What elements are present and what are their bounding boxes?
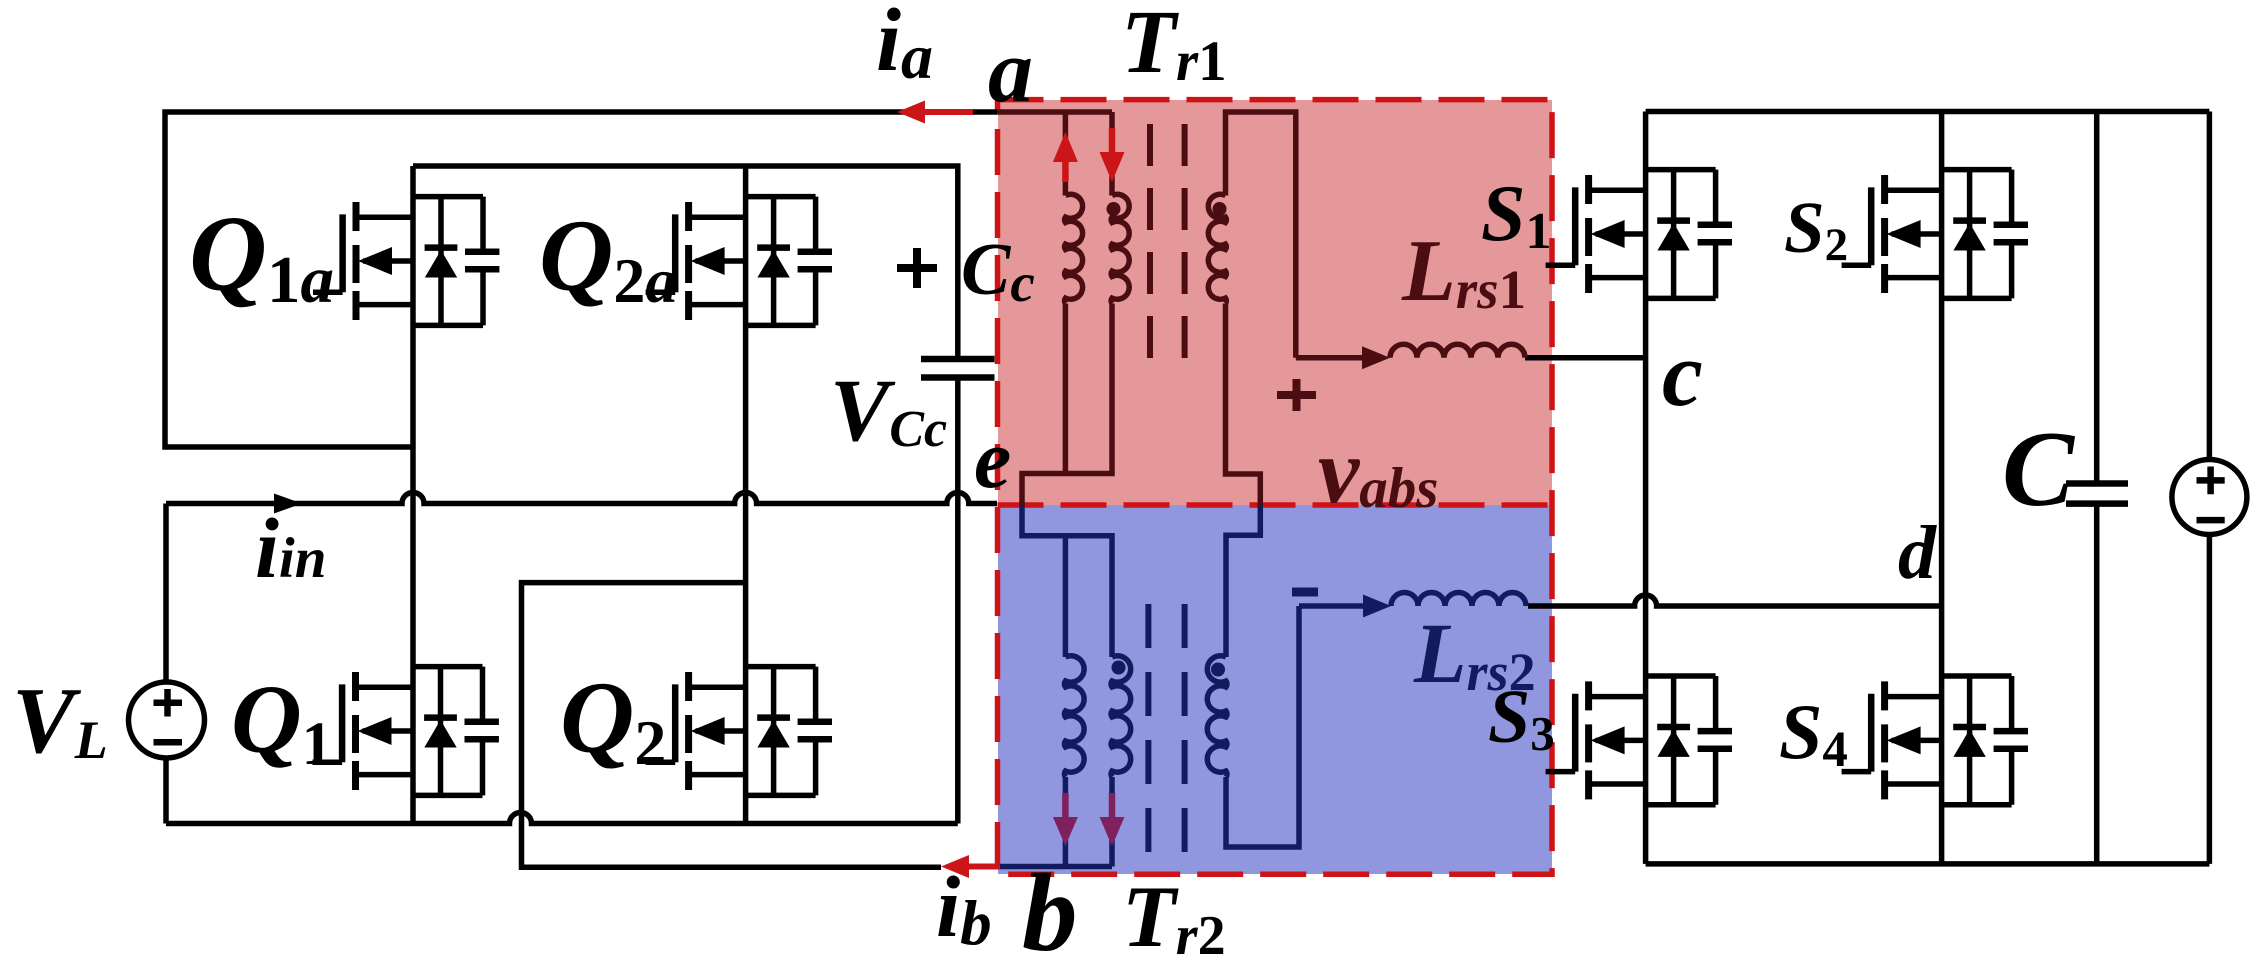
svg-text:VL: VL xyxy=(12,669,108,773)
svg-text:d: d xyxy=(1898,511,1937,595)
transistor Q1a xyxy=(313,197,499,326)
dot Tr2 primary-2 xyxy=(1112,661,1126,675)
dashed divider xyxy=(998,502,1553,508)
transistor S3 xyxy=(1546,676,1732,805)
svg-text:ia: ia xyxy=(876,0,933,92)
wire Tr1 secondary top lead xyxy=(1226,112,1296,358)
wire Lrs2 to node d with hop xyxy=(1528,595,1942,606)
arrow on Lrs2 wire xyxy=(1363,595,1391,618)
wire bus S1-S3 xyxy=(1643,112,1649,864)
svg-text:e: e xyxy=(974,413,1011,506)
svg-text:Tr2: Tr2 xyxy=(1122,869,1226,963)
wire Tr2 secondary bottom lead xyxy=(1226,606,1299,847)
wire Tr2 secondary top lead xyxy=(1226,505,1260,657)
wire Lrs1 to node c xyxy=(1525,355,1646,361)
svg-text:C: C xyxy=(2002,410,2076,529)
shaded region Tr2 (blue) xyxy=(998,505,1552,874)
wire clamp rail to Cc xyxy=(413,166,958,359)
svg-text:c: c xyxy=(1662,323,1703,425)
wire VL bottom lead xyxy=(163,756,169,824)
winding Tr2 secondary xyxy=(1207,656,1227,777)
capacitor Cc xyxy=(921,359,995,378)
capacitor C xyxy=(2066,484,2128,504)
svg-text:Q1: Q1 xyxy=(231,666,332,778)
wire Tr2 primary-2 bottom lead xyxy=(1109,777,1115,867)
arrow Tr2 current down 2 xyxy=(1109,793,1116,820)
winding Tr2 primary 1 xyxy=(1064,656,1084,777)
wire bottom rail with hop xyxy=(166,813,958,824)
inductor Lrs2 xyxy=(1391,593,1526,607)
wire Tr2 primary-1 top lead xyxy=(1063,536,1069,657)
arrow i_b xyxy=(941,855,969,878)
wire Tr1 primary-2 top lead xyxy=(1109,112,1115,196)
arrow Tr2 current down 1 xyxy=(1062,793,1069,820)
wire Tr1 primary bottom link to node e xyxy=(1022,304,1112,506)
svg-text:S4: S4 xyxy=(1779,688,1848,778)
winding Tr2 primary 2 xyxy=(1111,656,1131,777)
svg-text:S2: S2 xyxy=(1784,187,1848,271)
wire node b inside region xyxy=(1000,864,1112,870)
wire node e rail with hops xyxy=(166,493,997,504)
arrow i_in xyxy=(274,494,302,514)
source output xyxy=(2172,460,2247,535)
svg-text:Tr1: Tr1 xyxy=(1121,0,1227,93)
wire bus Q2a-Q2 xyxy=(743,166,749,824)
wire VL top lead xyxy=(163,504,169,685)
wire output source leads xyxy=(2207,112,2213,864)
arrow on Lrs1 wire xyxy=(1362,346,1390,369)
wire bus Q1a-Q1 xyxy=(410,166,416,824)
transistor S4 xyxy=(1842,676,2028,805)
dot Tr2 secondary xyxy=(1211,663,1225,677)
core Tr1 xyxy=(1150,124,1185,360)
winding Tr1 secondary xyxy=(1208,194,1226,303)
transistor Q2 xyxy=(646,667,832,796)
plus vabs xyxy=(1277,379,1316,411)
wire node a to Tr1 primaries xyxy=(997,109,1112,115)
svg-text:iin: iin xyxy=(255,500,326,596)
transistor Q1 xyxy=(313,667,499,796)
wire bus S2-S4 xyxy=(1939,112,1945,864)
wire Tr1 primary-1 top lead xyxy=(1063,112,1069,196)
wire node e link to Tr2 primaries xyxy=(1022,505,1112,657)
wire Lrs1 left xyxy=(1296,355,1364,361)
wire top rail right xyxy=(1646,109,2210,115)
minus vabs xyxy=(1292,588,1318,597)
svg-text:a: a xyxy=(988,22,1033,121)
shaded region Tr1 (red) xyxy=(998,100,1552,505)
dot Tr1 secondary xyxy=(1213,202,1227,216)
winding Tr1 primary 1 xyxy=(1065,194,1083,303)
svg-text:Q2: Q2 xyxy=(560,661,666,778)
wire Tr1 secondary bottom lead xyxy=(1226,304,1261,506)
svg-text:Q2a: Q2a xyxy=(539,199,677,316)
source VL xyxy=(129,682,205,758)
wire capacitor C bus xyxy=(2094,112,2100,864)
plus Cc xyxy=(897,248,937,288)
wire Tr1 primary-1 bottom lead xyxy=(1063,304,1069,474)
winding Tr1 primary 2 xyxy=(1111,194,1129,303)
arrow Tr1 current up xyxy=(1062,158,1069,182)
transistor Q2a xyxy=(646,197,832,326)
transistor S2 xyxy=(1842,170,2028,299)
arrow Tr1 current down xyxy=(1109,128,1116,152)
wire Lrs2 left xyxy=(1299,603,1364,609)
inductor Lrs1 xyxy=(1390,344,1525,358)
core Tr2 xyxy=(1148,604,1184,861)
svg-text:b: b xyxy=(1022,852,1078,963)
dashed boundary box xyxy=(998,100,1553,875)
dot Tr1 primary-2 xyxy=(1107,202,1121,216)
arrow i_a xyxy=(897,101,925,124)
svg-text:Q1a: Q1a xyxy=(189,195,334,317)
wire top-left loop a-rail xyxy=(165,112,997,447)
wire bottom rail right xyxy=(1646,861,2210,867)
transistor S1 xyxy=(1546,170,1732,299)
wire Cc bottom lead xyxy=(955,378,961,824)
wire Tr2 primary-1 bottom lead xyxy=(1063,777,1069,867)
wire Q2 drain to node b xyxy=(522,583,942,868)
